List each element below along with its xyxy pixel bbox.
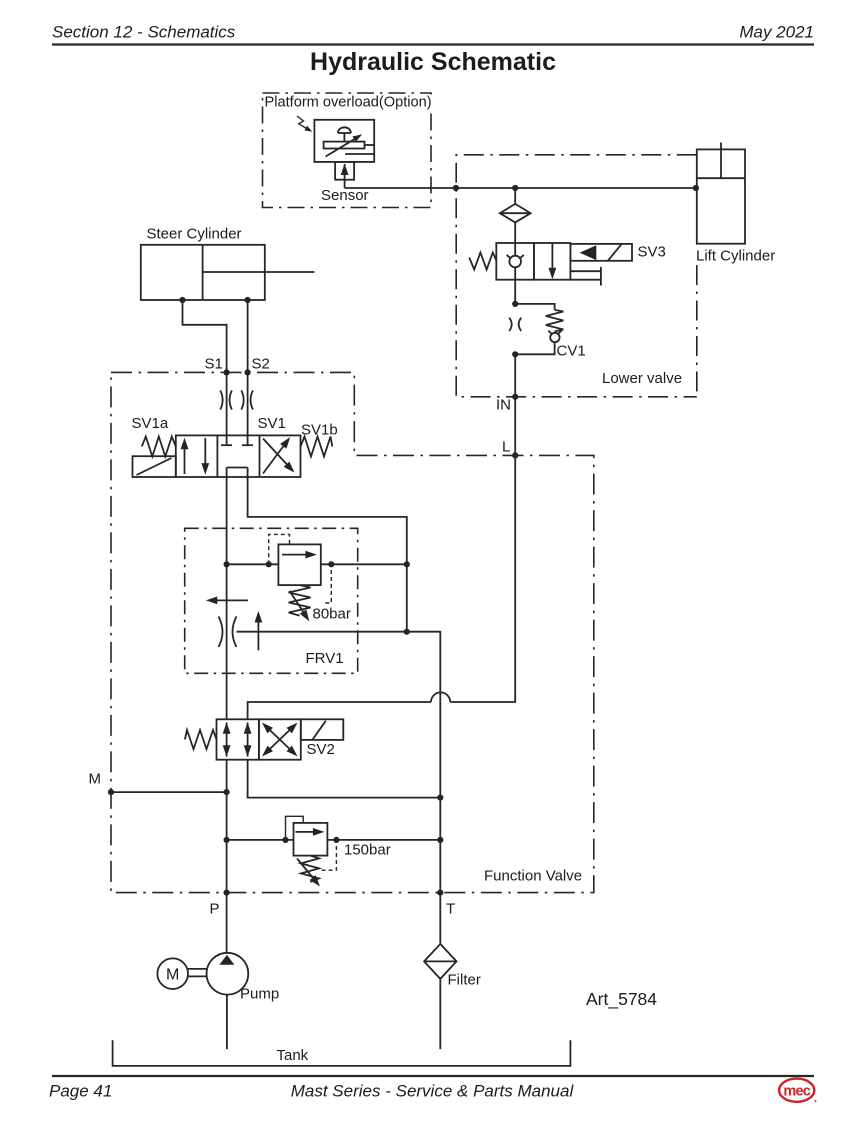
svg-text:SV1: SV1	[258, 415, 286, 432]
spring SV1b	[258, 415, 338, 457]
svg-text:Sensor: Sensor	[321, 187, 369, 204]
solenoid SV1a	[132, 415, 176, 477]
valve SV1	[176, 435, 301, 477]
relief valve 80bar	[224, 534, 407, 623]
wire diamond to SV3	[514, 222, 516, 243]
flow regulator arrows FRV1	[206, 597, 344, 668]
tank	[113, 1040, 571, 1066]
footer rule	[52, 1075, 814, 1077]
wire main line SV1 to SV2	[226, 468, 228, 720]
wire pump to tank	[226, 995, 228, 1050]
svg-text:Mast Series - Service & Parts: Mast Series - Service & Parts Manual	[291, 1082, 575, 1101]
relief valve 150bar	[224, 816, 444, 889]
wire SV2 return to T	[248, 760, 444, 801]
steer cylinder	[141, 226, 315, 304]
pressure sensor (Platform overload)	[297, 116, 374, 204]
svg-text:FRV1: FRV1	[306, 650, 344, 667]
svg-text:Steer Cylinder: Steer Cylinder	[147, 226, 242, 243]
svg-text:Hydraulic Schematic: Hydraulic Schematic	[310, 48, 556, 76]
svg-text:L: L	[502, 439, 510, 456]
svg-text:mec: mec	[783, 1084, 810, 1100]
svg-text:Tank: Tank	[277, 1047, 309, 1064]
valve SV3	[469, 243, 666, 286]
junction dots P and T on boundary	[210, 890, 456, 918]
svg-text:S1: S1	[205, 356, 223, 373]
svg-text:Page 41: Page 41	[49, 1082, 112, 1101]
svg-text:Function Valve: Function Valve	[484, 868, 582, 885]
wire to check diamond	[514, 188, 516, 204]
header rule	[52, 43, 814, 45]
svg-text:80bar: 80bar	[313, 606, 351, 623]
wire L line	[248, 455, 516, 719]
svg-text:T: T	[446, 901, 455, 918]
svg-text:CV1: CV1	[557, 343, 586, 360]
svg-text:SV3: SV3	[638, 244, 666, 261]
svg-text:P: P	[210, 901, 220, 918]
svg-text:SV1b: SV1b	[301, 422, 338, 439]
svg-text:Pump: Pump	[240, 986, 279, 1003]
lower valve dash-dot box	[456, 155, 697, 397]
svg-text:150bar: 150bar	[344, 842, 391, 859]
wire M line	[89, 771, 230, 796]
wire SV3 to CV1	[514, 280, 516, 304]
svg-text:Art_5784: Art_5784	[586, 989, 657, 1010]
svg-text:M: M	[166, 967, 179, 984]
wire IN line	[496, 354, 518, 458]
valve SV2	[185, 719, 343, 759]
svg-text:Platform overload(Option): Platform overload(Option)	[265, 95, 432, 111]
svg-text:Section 12 - Schematics: Section 12 - Schematics	[52, 23, 236, 42]
orifice on S1	[220, 390, 232, 409]
wire sensor to lift cylinder	[345, 185, 699, 191]
function valve dash-dot box	[111, 372, 594, 892]
wire S1	[183, 300, 230, 445]
wire bypass SV1 to FRV1 outlet	[248, 468, 410, 635]
pump with motor M	[157, 953, 279, 1003]
check valve CV1	[509, 301, 585, 360]
svg-text:M: M	[89, 771, 102, 788]
svg-text:IN: IN	[496, 397, 511, 414]
platform overload dash-dot box	[263, 93, 433, 208]
check valve diamond	[500, 204, 531, 223]
lift cylinder	[696, 143, 775, 265]
filter	[424, 944, 481, 989]
svg-text:May 2021: May 2021	[739, 23, 814, 42]
FRV1 dash-dot box	[185, 528, 358, 673]
wire FRV1 outlet to T line	[237, 632, 441, 944]
svg-text:Filter: Filter	[448, 972, 481, 989]
svg-text:SV2: SV2	[307, 741, 335, 758]
logo MEC	[779, 1079, 816, 1102]
wire filter to tank	[439, 979, 441, 1049]
svg-text:Lower valve: Lower valve	[602, 370, 682, 387]
wire S2	[245, 300, 270, 445]
svg-text:S2: S2	[252, 356, 270, 373]
svg-text:SV1a: SV1a	[132, 415, 169, 432]
wire main line SV2 to pump	[226, 760, 228, 953]
svg-text:Lift Cylinder: Lift Cylinder	[696, 248, 775, 265]
orifice on S2	[241, 390, 253, 409]
